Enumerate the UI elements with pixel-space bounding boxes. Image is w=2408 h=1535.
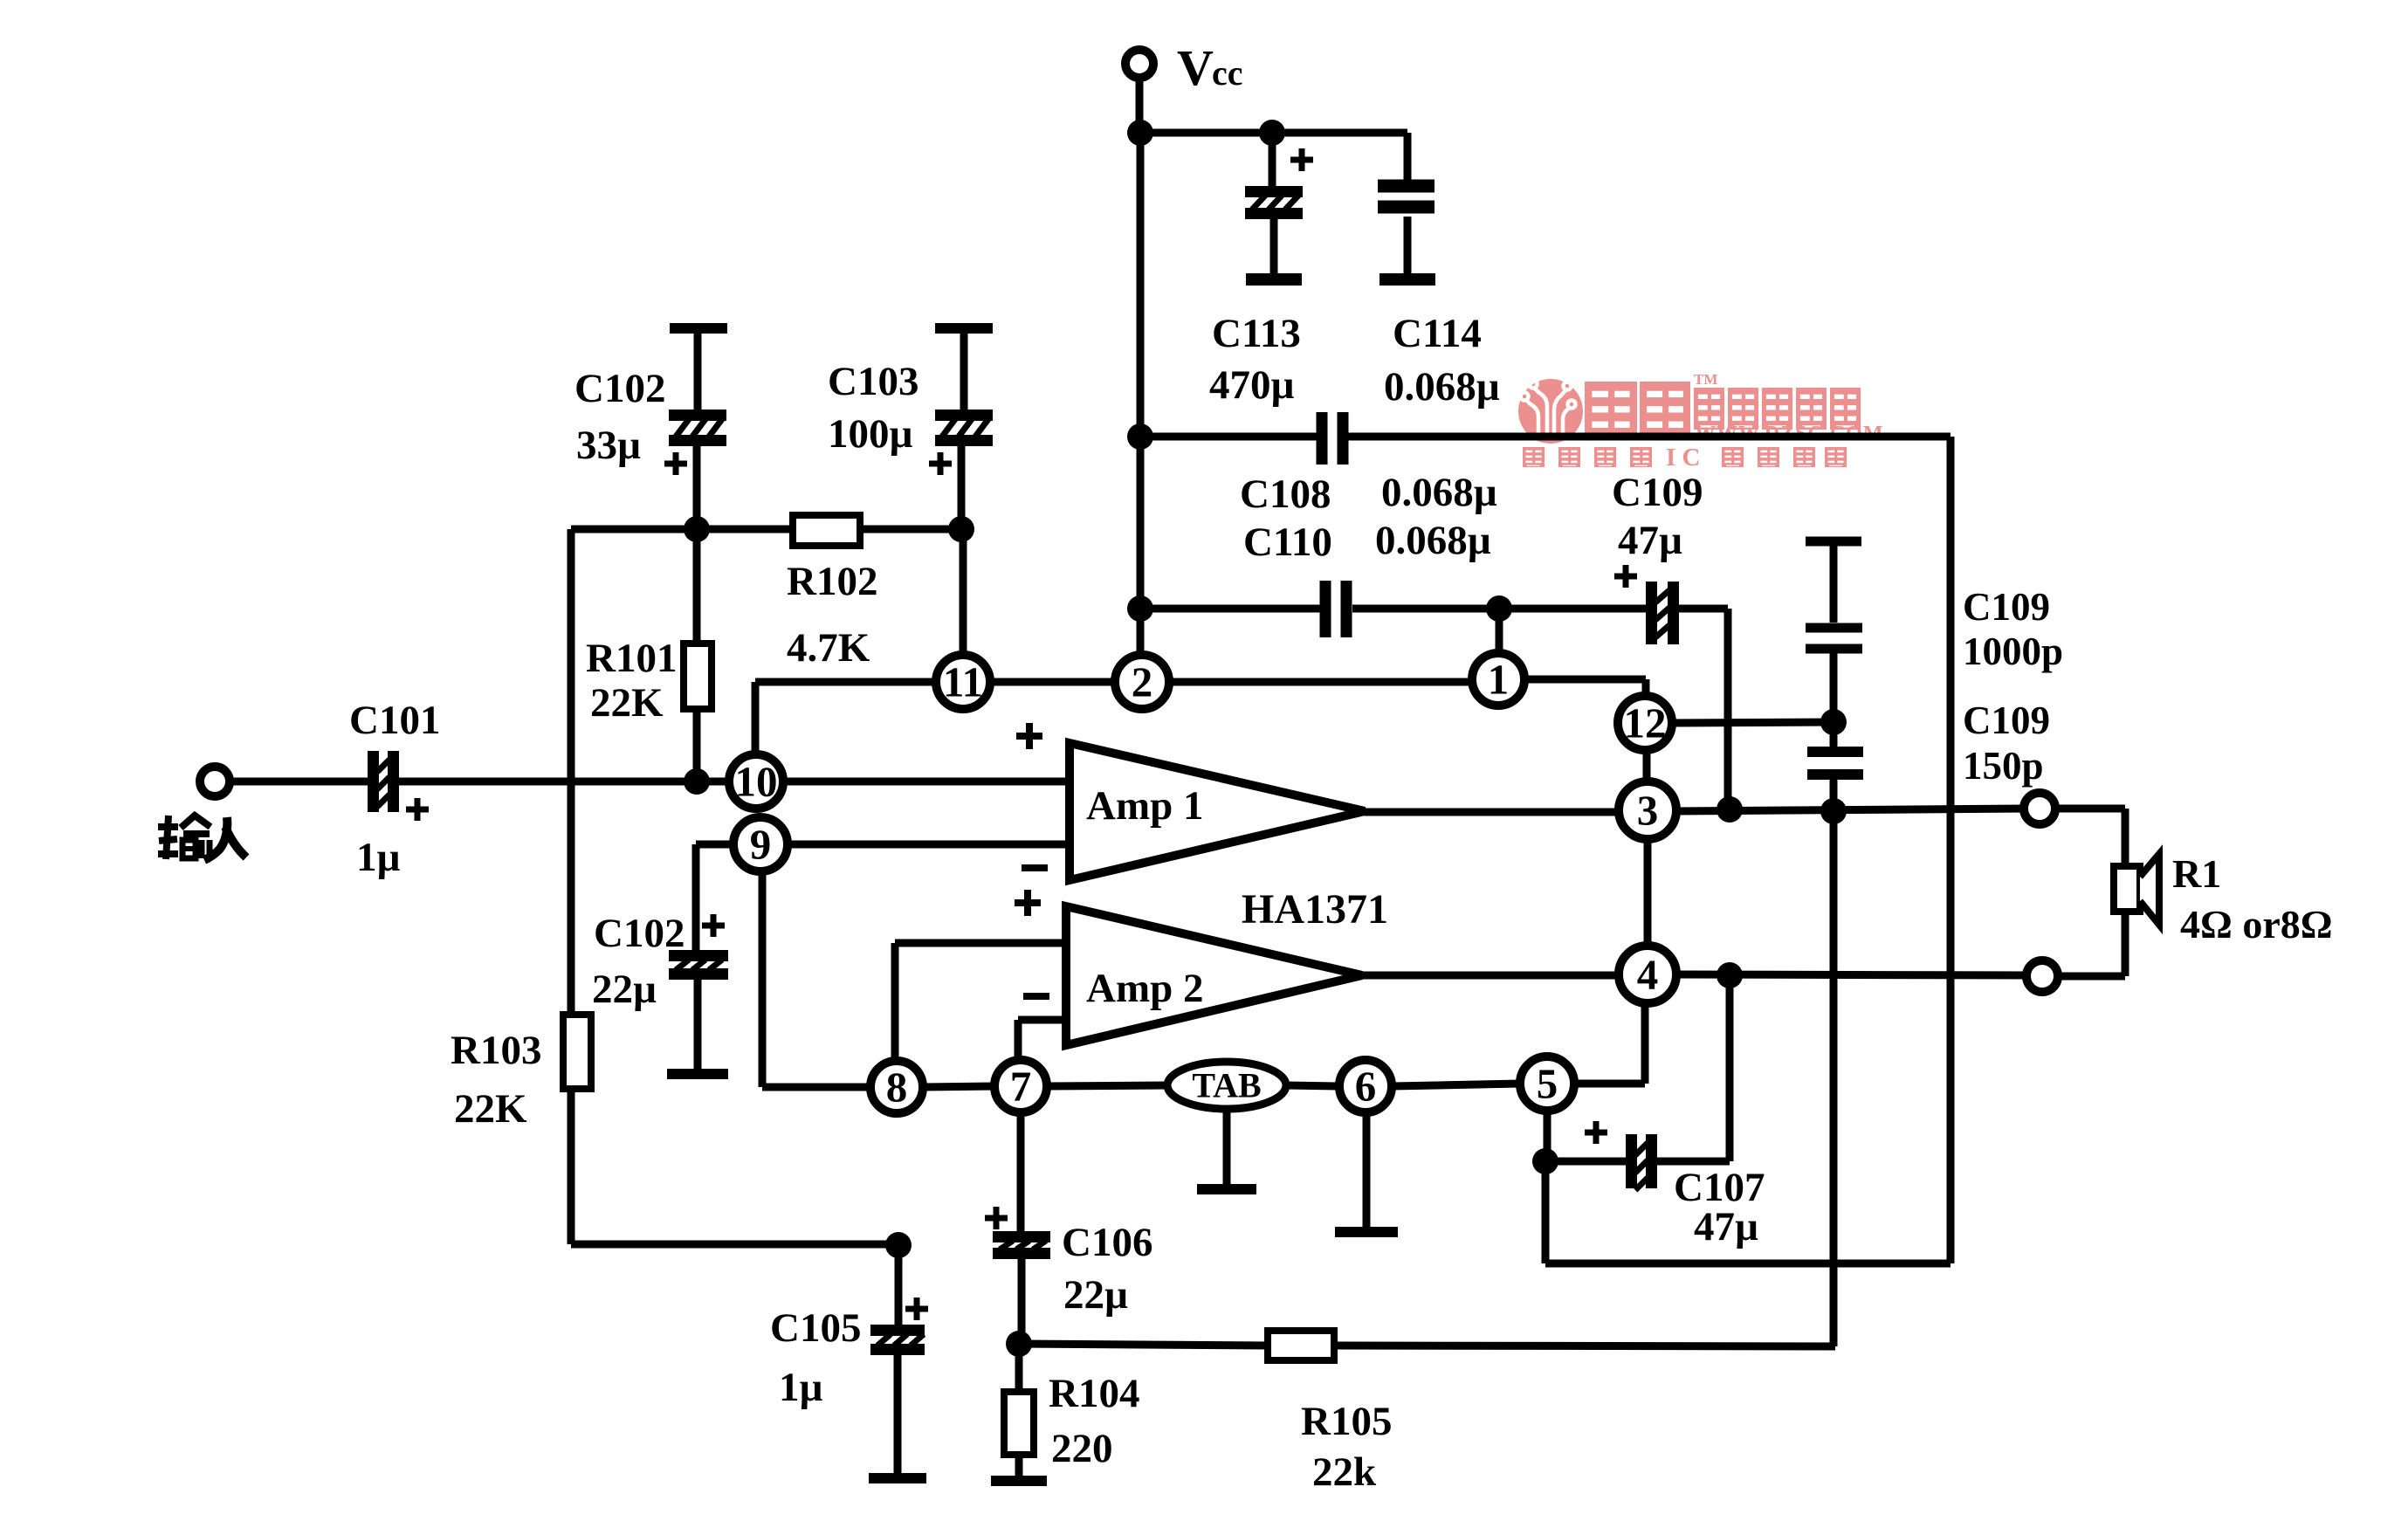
- Amp2 - mark: [1023, 993, 1049, 1000]
- wire bottom loop to right edge: [1545, 1260, 1950, 1268]
- C101 polarity +: [406, 798, 429, 821]
- wire pin7-TAB: [1047, 1085, 1167, 1086]
- wire R101 bottom lead: [693, 709, 701, 781]
- svg-text:1000p: 1000p: [1963, 630, 2063, 673]
- watermark brand text: [1585, 382, 1637, 440]
- svg-text:12: 12: [1624, 699, 1667, 747]
- node R102/C102/R101: [684, 516, 710, 542]
- wire pin5 right: [1574, 1080, 1645, 1088]
- svg-text:5: 5: [1537, 1060, 1558, 1108]
- capacitor C107: [1626, 1134, 1657, 1190]
- pin 9: [733, 817, 788, 871]
- ground C105: [869, 1355, 926, 1483]
- svg-text:C109: C109: [1612, 470, 1703, 515]
- node C105 tap: [885, 1232, 912, 1258]
- node Vcc junction: [1127, 120, 1153, 146]
- svg-text:C113: C113: [1212, 311, 1301, 356]
- wire input to C101: [230, 778, 368, 786]
- pin TAB: [1167, 1062, 1286, 1109]
- wire Amp1 out to pin3: [1365, 809, 1619, 816]
- wire 1000p bottom lead: [1830, 653, 1838, 722]
- svg-text:4: 4: [1637, 951, 1659, 999]
- wire bottom feedback run: [571, 1241, 898, 1249]
- svg-text:C108: C108: [1240, 472, 1331, 517]
- wire C105 top lead: [895, 1245, 903, 1325]
- svg-text:C110: C110: [1243, 520, 1332, 565]
- wire pin9 to Amp1 -: [787, 841, 1070, 849]
- input terminal: [200, 767, 230, 796]
- C109-1000p top plate bar: [1806, 537, 1861, 547]
- svg-text:0.068µ: 0.068µ: [1375, 518, 1491, 563]
- wire pin4 to speaker terminal: [1676, 974, 2031, 975]
- wire terminal to speaker top: [2055, 805, 2125, 813]
- C102-33u top plate bar: [670, 323, 727, 334]
- pin 4: [1619, 946, 1676, 1003]
- wire speaker top drop: [2122, 809, 2129, 866]
- C105 polarity +: [905, 1298, 928, 1320]
- wire R101 top lead: [693, 529, 701, 644]
- wire pin11 stem to R102 node: [960, 529, 967, 655]
- svg-text:R103: R103: [451, 1028, 541, 1073]
- svg-text:1: 1: [1488, 656, 1510, 704]
- wire Amp2 - input: [1018, 1016, 1066, 1024]
- wire pin12 to cap node: [1674, 722, 1834, 723]
- wire to pin7 top: [1015, 1020, 1022, 1060]
- svg-text:Amp 2: Amp 2: [1086, 966, 1203, 1011]
- op-amp Amp2: [1066, 906, 1362, 1045]
- wire pin7 down to C106: [1017, 1112, 1025, 1231]
- Amp1 + mark: [1016, 723, 1042, 749]
- pin 2: [1115, 655, 1169, 709]
- svg-text:9: 9: [750, 821, 772, 869]
- resistor R104: [1004, 1392, 1034, 1455]
- svg-text:cc: cc: [1212, 53, 1243, 93]
- speaker terminal top: [2024, 793, 2055, 824]
- wire C102-33u top lead: [694, 333, 702, 410]
- ground pin6: [1335, 1112, 1398, 1237]
- wire pin5 node down: [1542, 1161, 1550, 1263]
- svg-text:22K: 22K: [590, 680, 664, 726]
- Amp2 + mark: [1015, 890, 1041, 916]
- svg-text:V: V: [1177, 39, 1214, 96]
- wire C110 to C109-47u: [1352, 605, 1646, 613]
- speaker R1: [2114, 854, 2159, 925]
- svg-text:22µ: 22µ: [592, 967, 657, 1012]
- Amp1 - mark: [1022, 864, 1048, 871]
- wire to C110: [1140, 605, 1320, 613]
- svg-text:4.7K: 4.7K: [787, 625, 870, 671]
- wire riser to pin3 node: [1724, 609, 1732, 809]
- svg-text:8: 8: [886, 1063, 908, 1112]
- wire to C107: [1545, 1158, 1626, 1166]
- svg-text:HA1371: HA1371: [1242, 886, 1388, 933]
- node between 1000p and 150p: [1820, 709, 1847, 735]
- wire Amp2 + input: [895, 940, 1066, 947]
- capacitor C113: [1245, 186, 1303, 219]
- capacitor C102 33u: [669, 410, 726, 446]
- capacitor C106: [993, 1231, 1050, 1259]
- svg-text:22µ: 22µ: [1063, 1272, 1128, 1318]
- ground TAB: [1197, 1109, 1256, 1194]
- wire 150p top lead: [1830, 722, 1838, 747]
- wire feedback column: [568, 529, 575, 1015]
- wire C109-47u to riser: [1679, 605, 1728, 613]
- svg-text:C102: C102: [574, 366, 665, 411]
- C113 polarity +: [1290, 148, 1313, 171]
- C113 bottom plate bar: [1246, 273, 1302, 286]
- svg-text:0.068µ: 0.068µ: [1384, 364, 1500, 410]
- wire Vcc rail: [1139, 129, 1407, 137]
- wire 150p bottom / feedback column: [1830, 780, 1838, 1346]
- wire C114 top lead: [1404, 133, 1412, 184]
- resistor R103: [563, 1015, 591, 1089]
- resistor R101: [684, 644, 712, 709]
- node C113 tap: [1259, 120, 1285, 146]
- C109 47u polarity +: [1614, 565, 1637, 588]
- pin 8: [870, 1061, 923, 1113]
- capacitor C109 150p: [1807, 747, 1863, 780]
- wire pin6-pin5: [1392, 1084, 1520, 1086]
- svg-text:TAB: TAB: [1192, 1066, 1261, 1105]
- svg-text:C105: C105: [770, 1305, 861, 1351]
- wire pin12-pin3 connector: [1643, 747, 1651, 786]
- node pin1 tap: [1486, 595, 1512, 622]
- wire C102-33u lead: [693, 446, 701, 529]
- wire C101 to pin10: [399, 778, 730, 786]
- svg-text:33µ: 33µ: [576, 423, 641, 468]
- resistor R105: [1268, 1331, 1334, 1360]
- svg-text:10: 10: [735, 758, 778, 806]
- node input/R101/pin10: [684, 768, 710, 795]
- svg-text:C103: C103: [828, 359, 918, 404]
- C103 polarity +: [929, 452, 952, 475]
- svg-text:4Ω or8Ω: 4Ω or8Ω: [2180, 902, 2333, 946]
- C107 polarity +: [1585, 1121, 1607, 1144]
- wire R102 right: [860, 526, 961, 533]
- svg-text:C101: C101: [349, 698, 440, 743]
- capacitor C101: [368, 751, 399, 812]
- Vcc terminal: [1125, 50, 1153, 78]
- wire R104 top lead: [1015, 1344, 1023, 1392]
- wire C107 right: [1657, 1158, 1730, 1166]
- node C108 bus tap: [1127, 423, 1153, 450]
- wire C114 bottom lead: [1404, 217, 1412, 273]
- svg-text:11: 11: [943, 658, 983, 706]
- ground R104: [991, 1455, 1047, 1486]
- capacitor C103: [935, 410, 993, 446]
- wire terminal to speaker bottom: [2058, 973, 2125, 981]
- capacitor C108: [1317, 412, 1349, 465]
- wire to C102-22u: [692, 844, 700, 950]
- svg-text:22K: 22K: [454, 1086, 527, 1132]
- svg-text:47µ: 47µ: [1618, 518, 1682, 563]
- capacitor C105: [870, 1325, 925, 1355]
- wire R105 to feedback column: [1334, 1346, 1835, 1346]
- wire pin3 to speaker terminal: [1676, 809, 2028, 811]
- node C106/R104/R105: [1006, 1331, 1032, 1357]
- svg-text:R104: R104: [1049, 1371, 1139, 1416]
- node C110 tap: [1127, 595, 1153, 622]
- svg-text:R1: R1: [2172, 851, 2221, 896]
- wire pin3-pin4 connector: [1644, 839, 1652, 946]
- wire Vcc stem: [1136, 78, 1144, 133]
- wire C113 top lead: [1269, 133, 1276, 186]
- wire C106 bottom lead: [1018, 1259, 1026, 1344]
- C102-33u polarity +: [664, 452, 687, 475]
- svg-text:C114: C114: [1393, 311, 1482, 356]
- svg-text:R105: R105: [1301, 1399, 1392, 1444]
- svg-text:470µ: 470µ: [1209, 362, 1295, 408]
- svg-text:C109: C109: [1963, 699, 2050, 742]
- svg-text:22k: 22k: [1312, 1449, 1377, 1495]
- wire bus pins 11-2-1: [755, 678, 1471, 686]
- node pin4/C107 riser: [1717, 962, 1743, 988]
- pin 11: [936, 655, 990, 709]
- svg-text:100µ: 100µ: [828, 411, 913, 457]
- svg-text:3: 3: [1637, 787, 1659, 835]
- wire TAB-pin6: [1286, 1085, 1339, 1086]
- wire Vcc column to pin 2: [1137, 133, 1145, 655]
- wire pin9 down: [759, 871, 767, 1087]
- svg-text:I C: I C: [1666, 444, 1700, 472]
- svg-text:150p: 150p: [1963, 744, 2044, 788]
- svg-text:C106: C106: [1062, 1220, 1152, 1265]
- svg-text:220: 220: [1051, 1426, 1113, 1471]
- resistor R102: [793, 515, 860, 546]
- wire to pin8 top: [891, 943, 899, 1061]
- wire pin5 down: [1544, 1111, 1551, 1161]
- svg-text:47µ: 47µ: [1694, 1204, 1758, 1249]
- pin 3: [1619, 781, 1676, 839]
- svg-text:R101: R101: [586, 636, 677, 681]
- capacitor C109 47u: [1646, 582, 1679, 644]
- capacitor C114: [1378, 180, 1434, 214]
- svg-text:7: 7: [1010, 1063, 1032, 1111]
- C114 bottom plate bar: [1379, 273, 1435, 286]
- wire to C108: [1140, 433, 1318, 441]
- svg-text:2: 2: [1132, 658, 1153, 706]
- capacitor C102 22u: [669, 950, 728, 980]
- C102-22u polarity +: [702, 914, 725, 937]
- capacitor C109 1000p: [1806, 623, 1862, 654]
- speaker terminal bottom: [2026, 960, 2058, 992]
- wire 1000p top lead: [1830, 546, 1838, 623]
- watermark dzsc logo: [1518, 379, 1583, 444]
- svg-text:C109: C109: [1963, 585, 2050, 629]
- wire to pin8: [762, 1084, 870, 1091]
- wire C113 bottom lead: [1270, 219, 1278, 273]
- svg-text:0.068µ: 0.068µ: [1381, 470, 1497, 515]
- input label shu-ru: [158, 816, 246, 860]
- ground C102-22u: [667, 980, 728, 1079]
- pin 12: [1618, 696, 1672, 750]
- svg-text:TM: TM: [1694, 371, 1717, 388]
- capacitor C110: [1320, 581, 1352, 637]
- pin 7: [994, 1060, 1047, 1112]
- wire pin8-pin7: [923, 1086, 994, 1087]
- node pin5/C107: [1532, 1148, 1558, 1174]
- node pin3/47u riser: [1717, 796, 1743, 823]
- svg-text:1µ: 1µ: [779, 1365, 823, 1410]
- wire Amp2 out to pin4: [1362, 972, 1619, 980]
- svg-text:C102: C102: [594, 911, 685, 956]
- C106 polarity +: [985, 1207, 1008, 1229]
- pin 5: [1520, 1057, 1574, 1111]
- node pin3/caps column: [1820, 798, 1847, 824]
- wire C103 top lead: [960, 333, 968, 410]
- wire R102 left: [571, 526, 793, 533]
- node R102/C103/pin11: [948, 516, 974, 542]
- op-amp Amp1: [1070, 743, 1365, 880]
- wire pin1 to pin12 corner: [1526, 676, 1646, 684]
- wire C108 bus to right edge: [1347, 433, 1950, 441]
- pin 6: [1339, 1060, 1392, 1112]
- wire R103 bottom lead: [568, 1089, 575, 1244]
- wire pin10 to Amp1 +: [782, 778, 1070, 786]
- watermark slogan: [1523, 447, 1545, 467]
- wire pin1 stem: [1496, 609, 1503, 652]
- svg-text:R102: R102: [787, 559, 877, 604]
- pin 10: [729, 754, 783, 809]
- wire right-edge drop: [1947, 437, 1955, 1263]
- wire drop to pin12: [1642, 679, 1650, 694]
- wire to R105: [1019, 1344, 1268, 1346]
- wire C107 riser to pin4 node: [1726, 975, 1734, 1161]
- wire speaker bottom drop: [2122, 912, 2129, 976]
- svg-text:Amp 1: Amp 1: [1086, 783, 1203, 829]
- wire C103 lead: [958, 446, 966, 529]
- wire corner to pin10: [752, 682, 760, 754]
- wire pin9 left: [696, 841, 734, 849]
- svg-text:6: 6: [1355, 1063, 1377, 1111]
- C103 top plate bar: [935, 323, 993, 334]
- svg-text:1µ: 1µ: [356, 835, 401, 880]
- pin 1: [1472, 653, 1524, 706]
- wire up to pin4: [1641, 1003, 1649, 1084]
